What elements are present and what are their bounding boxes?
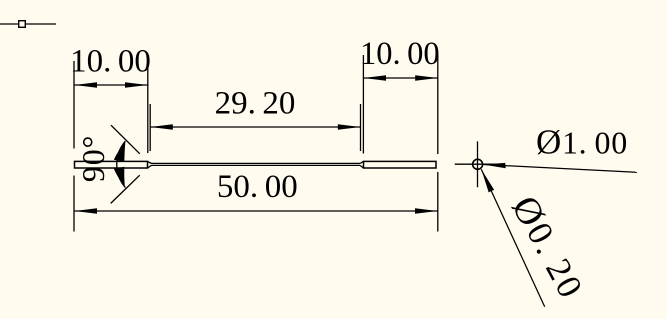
dimension 29.20: arrow left (150, 124, 173, 129)
angular dimension 90deg: dimension arc (117, 141, 126, 188)
detail point crosshair: vertical line (477, 141, 479, 187)
dimension 10.00 right: dimension line (364, 77, 438, 79)
svg-text:29. 20: 29. 20 (215, 86, 296, 122)
svg-text:90°: 90° (75, 135, 111, 182)
dimension 10.00 left: arrow left (75, 82, 98, 87)
dimension 29.20: arrow right (338, 124, 361, 129)
dimension 10.00 right: arrow right (415, 75, 438, 80)
dimension 50.00: arrow left (75, 208, 98, 213)
part outline: core wire (152, 163, 361, 165)
selected line with grip square (top left) (0, 21, 56, 28)
dimension 50.00: dimension line (75, 210, 438, 212)
dimension 10.00 right: extension line (right) (437, 55, 439, 232)
part outline: right taper (360, 161, 364, 168)
dimension 10.00 left: arrow right (125, 82, 148, 87)
part outline: left taper (148, 161, 152, 168)
part outline: right ferrule (364, 161, 437, 168)
dimension 29.20: dimension line (150, 126, 360, 128)
detail point circle (473, 159, 483, 169)
leader dia 0.20: arrow (481, 169, 494, 192)
leader dia 1.00: arrow (483, 163, 506, 168)
angular dimension 90deg: arrow lower (114, 167, 125, 188)
leader dia 0.20: line (481, 169, 544, 306)
dimension 10.00 right: arrow left (364, 75, 387, 80)
dimension 10.00 left: extension line (left, broken) (73, 61, 75, 232)
svg-text:10. 00: 10. 00 (360, 36, 440, 72)
leader dia 1.00: line (483, 165, 637, 173)
dimension 29.20: extension line (right) (360, 104, 362, 151)
svg-text:10. 00: 10. 00 (70, 43, 151, 79)
dimension 10.00 right: extension line (left) (362, 55, 364, 154)
dimension 10.00 left: extension line (right) (147, 62, 149, 153)
dimension 29.20: extension line (left) (149, 104, 151, 151)
angular dimension 90deg: arrow upper (114, 141, 126, 162)
angular dimension 90deg: extension line upper (111, 125, 140, 154)
svg-text:50. 00: 50. 00 (217, 169, 298, 205)
dimension 50.00: arrow right (415, 208, 438, 213)
part outline: left ferrule (75, 161, 148, 168)
angular dimension 90deg: extension line lower (111, 175, 140, 203)
detail point crosshair: horizontal line (455, 163, 501, 165)
dimension 10.00 left: dimension line (75, 84, 148, 86)
svg-text:Ø1. 00: Ø1. 00 (536, 123, 628, 162)
